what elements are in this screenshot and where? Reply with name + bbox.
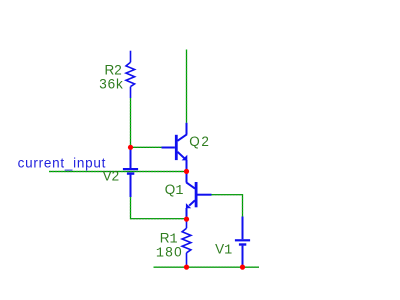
junction node R1-bottom/rail <box>184 265 189 270</box>
wire R2 bottom to node <box>130 98 132 147</box>
svg-text:Q1: Q1 <box>165 182 184 199</box>
junction node V1-bottom/rail <box>240 265 245 270</box>
junction node R2/V2/Q2-base <box>128 145 133 150</box>
svg-text:V2: V2 <box>103 169 120 184</box>
svg-text:180: 180 <box>156 244 183 261</box>
wire current_input <box>49 171 187 173</box>
wire Q2 collector net (long vertical) <box>186 50 188 123</box>
junction node Q1-emitter/R1/V2-return <box>184 217 189 222</box>
battery V2 <box>123 147 138 197</box>
resistor R1 <box>182 219 191 267</box>
svg-text:V1: V1 <box>215 241 232 258</box>
wire node to Q2 base <box>131 146 162 148</box>
svg-text:Q2: Q2 <box>189 134 210 149</box>
resistor R2 <box>126 51 135 98</box>
junction node Q2-emitter/current_input/Q1-collector <box>184 169 189 174</box>
battery V1 <box>235 217 250 268</box>
svg-text:current_input: current_input <box>18 155 107 170</box>
wire Q1 base to V1 top <box>212 195 243 217</box>
wire bottom rail <box>154 266 260 268</box>
svg-text:R2: R2 <box>105 62 122 77</box>
svg-text:36k: 36k <box>99 77 123 92</box>
transistor Q1 <box>186 171 212 219</box>
transistor Q2 <box>162 123 188 172</box>
wire V2 bottom to Q1 emitter node <box>131 197 187 219</box>
